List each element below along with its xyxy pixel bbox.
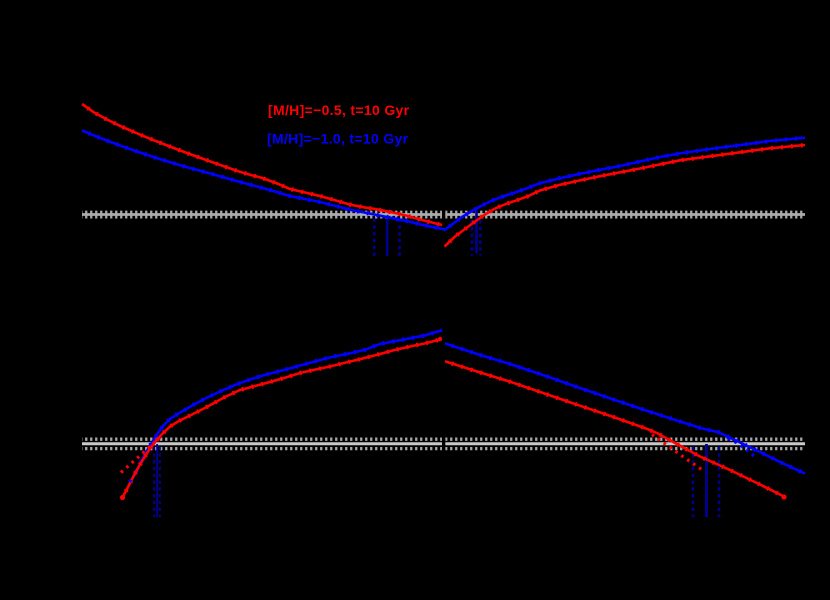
svg-text:[M/H]=−1.0, t=10 Gyr: [M/H]=−1.0, t=10 Gyr — [267, 131, 409, 147]
svg-text:[M/H]=−0.5, t=10 Gyr: [M/H]=−0.5, t=10 Gyr — [268, 102, 410, 118]
